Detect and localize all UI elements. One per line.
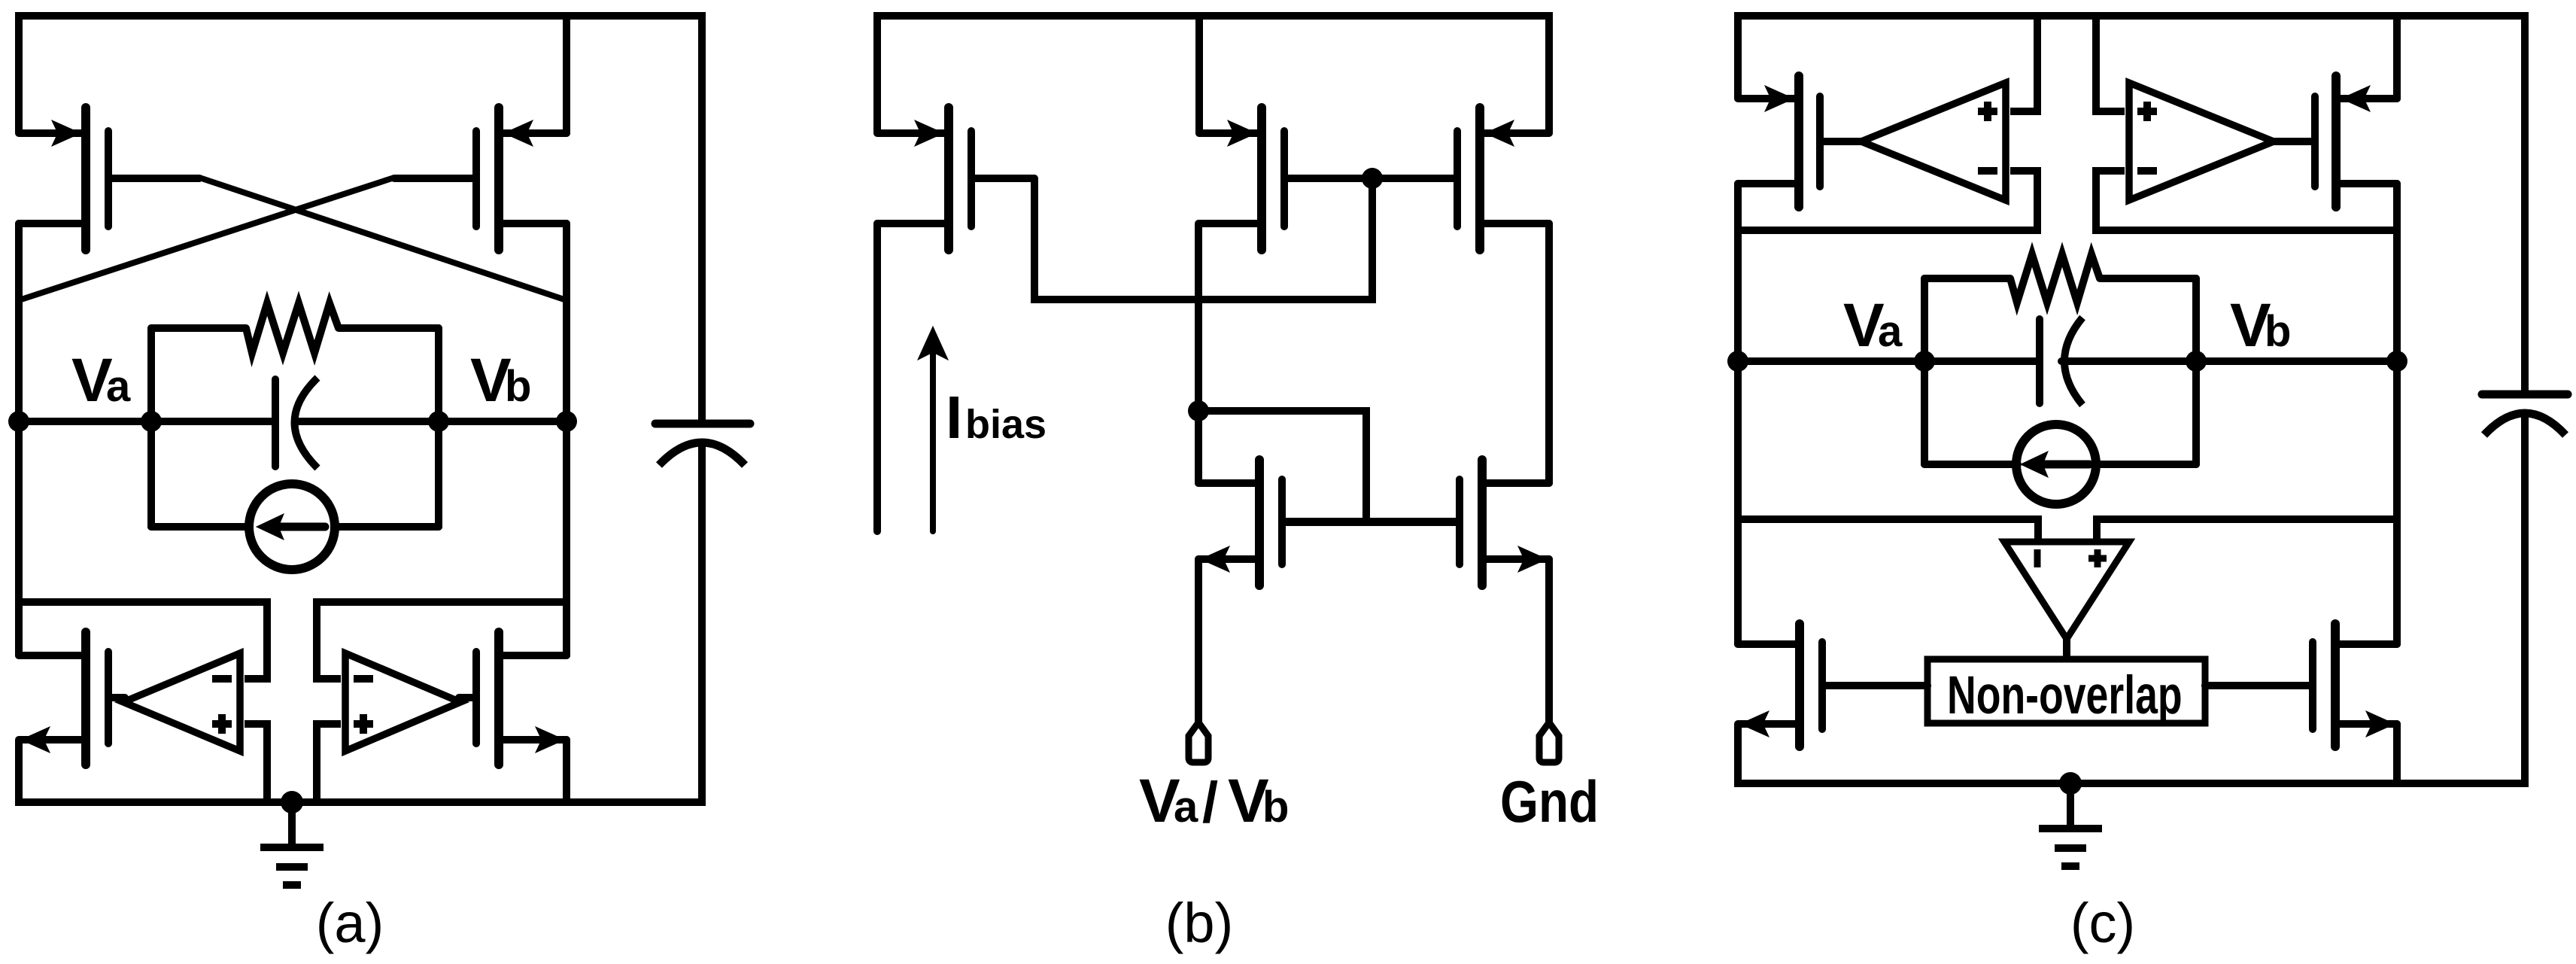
- svg-text:(c): (c): [2070, 892, 2135, 954]
- ground (a): [260, 791, 324, 885]
- wire: (a) top supply rail with left/right corner drops: [19, 16, 702, 421]
- node: (c) RC branch left junction: [1914, 351, 1935, 372]
- wire: (c) inner right vertical lower (M13 source to bottom rail): [2393, 724, 2401, 783]
- wire: (c) Va rail to down-comparator inverting input: [1738, 519, 2038, 539]
- wire: (c) RC branch left vertical: [1921, 278, 1928, 464]
- wire: (c) Non-overlap right output to M13 gate: [2205, 682, 2313, 689]
- svg-text:(b): (b): [1165, 892, 1233, 954]
- op-amp U4 (c) right comparator: [2129, 83, 2274, 200]
- op-amp U2 (a) right comparator: [345, 653, 460, 751]
- wire: (c) resistor branch top right stub: [2100, 275, 2196, 282]
- svg-text:a: a: [106, 362, 131, 411]
- wire: (a) left rail mid segment (drain to NMOS drain): [15, 224, 23, 655]
- svg-text:I: I: [946, 384, 962, 451]
- svg-text:(a): (a): [316, 892, 384, 954]
- wire: (b) M5 gate drop and gate bus to M6/M7 gates: [1034, 178, 1372, 300]
- wire: (c) Non-overlap left output to M12 gate: [1822, 682, 1927, 689]
- wire: (a) resistor branch top right stub: [339, 324, 439, 332]
- wire: (c) current-source branch bottom right stub: [2095, 461, 2196, 468]
- node: (a) RC branch left junction: [141, 411, 162, 432]
- node: (c) RC branch right junction: [2186, 351, 2207, 372]
- resistor R2 (c): [2010, 254, 2100, 303]
- wire: (c) comparator output to Non-overlap block: [2063, 639, 2070, 657]
- current source I2 (c): [2016, 424, 2096, 504]
- svg-text:/: /: [1202, 771, 1218, 835]
- capacitor C4 (c) right tank capacitor: [2482, 394, 2568, 435]
- node Vb (a): [556, 411, 577, 432]
- capacitor C3 (c) between Va and Vb: [2040, 318, 2082, 405]
- block: Non-overlap generator (c): [1927, 659, 2205, 723]
- wire: (c) Va-Vb node line right of capacitor C3: [2061, 357, 2397, 365]
- wire: (c) bottom ground rail with corners: [1738, 415, 2525, 783]
- transistor M7 (b) right PMOS: [1372, 108, 1549, 250]
- transistor M1 (a) top-left PMOS: [19, 108, 199, 250]
- wire: (c) current-source branch bottom left stub: [1924, 461, 2018, 468]
- wire: (a) inner right vertical lower (M4 source to bottom rail): [563, 740, 570, 802]
- wire: (a) cross-coupling diagonal M1 gate to M2 drain: [199, 178, 567, 300]
- wire: (c) Vb rail to down-comparator non-inverting input: [2097, 519, 2397, 539]
- wire: (a) Va-Vb node line right of capacitor C2: [295, 418, 567, 425]
- wire: (c) left comparator - input to Va rail: [1738, 171, 2037, 230]
- wire: (c) top supply rail with corner drops: [1738, 16, 2525, 391]
- wire: (b) M8 source down to Va/Vb terminal: [1195, 559, 1202, 724]
- wire: (c) resistor branch top left stub: [1924, 275, 2010, 282]
- wire: (a) Va to left comparator inverting input: [19, 602, 267, 679]
- transistor M12 (c) bottom-left NMOS: [1738, 624, 1927, 747]
- wire: (c) inner right vertical upper (rail to M11 source): [2393, 16, 2401, 99]
- wire: (b) M5 drain vertical (Ibias branch): [873, 224, 881, 531]
- op-amp U5 (c) downward comparator: [2004, 542, 2129, 639]
- wire: (a) Va-Vb node line left of capacitor C2: [19, 418, 272, 425]
- wire: (c) right comparator + input to supply rail: [2096, 16, 2125, 111]
- wire: (c) RC branch right vertical: [2192, 278, 2200, 464]
- wire: (a) right comparator non-inverting input to ground rail: [317, 724, 341, 802]
- wire: (a) left comparator non-inverting input to ground rail: [245, 724, 267, 802]
- capacitor C2 (a) between Va and Vb: [275, 378, 317, 468]
- current source I1 (a): [249, 484, 335, 570]
- wire: (a) inner right vertical upper (rail to M2 source): [563, 16, 570, 133]
- svg-text:bias: bias: [965, 402, 1046, 447]
- wire: (b) top supply rail with corner drops: [877, 16, 1549, 133]
- wire: (c) Va-Vb node line left of capacitor C3: [1738, 357, 2036, 365]
- wire: (b) M7 drain vertical to M9 drain: [1545, 224, 1553, 483]
- wire: (c) inner right vertical mid (M11 drain / Vb node / M13 drain): [2393, 184, 2401, 644]
- transistor M9 (b) right NMOS: [1366, 460, 1549, 585]
- wire: (b) M6 drain vertical to mirror node: [1195, 224, 1202, 411]
- wire: (a) bottom ground rail with corners: [19, 443, 702, 802]
- wire: (b) mirror node down to M8 drain: [1195, 411, 1202, 483]
- wire: (a) current-source branch bottom right stub: [336, 523, 439, 531]
- wire: (c) right comparator - input to Vb rail: [2096, 171, 2397, 230]
- op-amp U1 (a) left comparator: [123, 653, 240, 751]
- wire: (a) resistor branch top left stub: [151, 324, 246, 332]
- svg-text:Non-overlap: Non-overlap: [1947, 666, 2183, 725]
- svg-text:a: a: [1878, 307, 1903, 356]
- svg-text:b: b: [505, 362, 531, 411]
- wire: (b) NMOS gate bus M8-M9: [1282, 518, 1460, 526]
- wire: (a) RC branch left vertical: [147, 328, 155, 527]
- arrow: (b) Ibias current annotation: [918, 327, 948, 531]
- wire: (b) M9 source down to Gnd terminal: [1545, 559, 1553, 724]
- node Va (c): [1727, 351, 1748, 372]
- transistor M2 (a) top-right PMOS: [394, 108, 567, 250]
- wire: (a) Vb to right comparator inverting input: [317, 602, 567, 679]
- transistor M8 (b) left NMOS (diode-connected): [1198, 460, 1366, 585]
- transistor M11 (c) top-right PMOS: [2274, 76, 2397, 207]
- wire: (b) mirror node to NMOS gate bus riser: [1198, 411, 1366, 522]
- wire: (c) left comparator + input to supply rail: [2010, 16, 2037, 111]
- wire: (a) cross-coupling diagonal M2 gate to M1 drain: [19, 178, 394, 300]
- transistor M10 (c) top-left PMOS: [1738, 76, 1861, 207]
- wire: (a) RC branch right vertical: [435, 328, 442, 527]
- node: (a) RC branch right junction: [428, 411, 449, 432]
- capacitor C1 (a) right tank capacitor: [655, 424, 750, 465]
- terminal pin Gnd (b): [1539, 722, 1559, 762]
- node: (b) gate junction of M6/M7: [1362, 168, 1383, 189]
- ground (c): [2039, 772, 2102, 866]
- svg-text:b: b: [1262, 783, 1289, 832]
- node: (b) mirror node (M6 drain / M8 drain-gate): [1188, 400, 1209, 421]
- wire: (a) current-source branch bottom left stub: [151, 523, 248, 531]
- transistor M4 (a) bottom-right NMOS: [459, 632, 567, 765]
- wire: (b) middle source drop (rail to M6 source): [1195, 16, 1203, 133]
- svg-text:Gnd: Gnd: [1500, 770, 1599, 835]
- op-amp U3 (c) left comparator: [1861, 83, 2006, 200]
- transistor M13 (c) bottom-right NMOS: [2205, 624, 2397, 747]
- resistor R1 (a): [246, 303, 339, 353]
- wire: (c) left rail mid segment (M10 drain / Va node / M12 drain): [1734, 184, 1742, 644]
- transistor M5 (b) left PMOS: [877, 108, 1034, 250]
- svg-text:a: a: [1174, 783, 1198, 832]
- wire: (a) inner right vertical mid (M2 drain / Vb node / M4 drain): [563, 224, 570, 655]
- node Vb (c): [2386, 351, 2407, 372]
- node Va (a): [8, 411, 29, 432]
- transistor M3 (a) bottom-left NMOS: [19, 632, 125, 765]
- transistor M6 (b) middle PMOS: [1199, 108, 1372, 250]
- svg-text:b: b: [2265, 307, 2291, 356]
- terminal pin Va/Vb (b): [1189, 722, 1208, 762]
